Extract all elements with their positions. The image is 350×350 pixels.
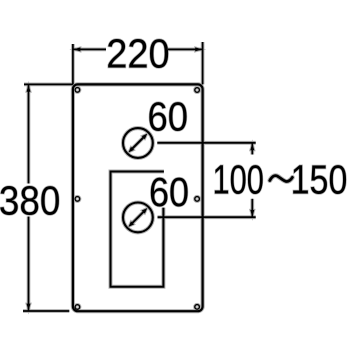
screw hole top-right	[195, 88, 200, 93]
dim 380 extension line bottom	[23, 310, 69, 312]
lower hole diameter arrow upper-right	[142, 208, 148, 214]
upper hole diameter line	[130, 136, 145, 151]
dim 100-150 arrow bottom	[250, 210, 254, 217]
dim 100-150 line lower segment	[251, 199, 253, 217]
dim 220 line right segment	[168, 48, 203, 50]
dim 220 arrow left	[73, 47, 80, 51]
upper hole diameter arrow lower-left	[128, 147, 134, 153]
upper hole circle	[123, 128, 153, 158]
svg-text:60: 60	[149, 170, 189, 216]
screw hole bottom-right	[195, 305, 200, 310]
lower hole circle	[123, 203, 153, 233]
inner cutout rectangle (right edge hidden behind 60 label)	[111, 172, 164, 287]
svg-text:220: 220	[106, 31, 169, 77]
dim 220 extension line right	[202, 42, 204, 84]
svg-text:380: 380	[0, 179, 60, 224]
screw hole mid-right	[195, 197, 200, 202]
dim 100-150 line upper segment	[251, 143, 253, 155]
dim 380 extension line top	[24, 83, 73, 85]
leader from lower hole	[158, 216, 256, 218]
dim 220 arrow right	[195, 47, 202, 51]
screw hole mid-left	[75, 197, 80, 202]
dim 380 line lower segment	[28, 217, 30, 311]
dim 220 line left segment	[73, 48, 106, 50]
dim 380 arrow top	[27, 85, 31, 92]
label 100-150 wave dash	[270, 176, 293, 182]
svg-text:100: 100	[213, 156, 264, 202]
dim 380 arrow bottom	[27, 304, 31, 311]
screw hole bottom-left	[75, 305, 80, 310]
plate outline	[73, 84, 203, 311]
screw hole top-left	[75, 88, 80, 93]
lower hole diameter line	[130, 210, 145, 225]
lower hole diameter arrow lower-left	[128, 221, 134, 227]
dim 220 extension line left	[72, 44, 74, 84]
svg-text:60: 60	[148, 94, 188, 139]
leader from upper hole	[157, 142, 255, 144]
upper hole diameter arrow upper-right	[142, 134, 148, 140]
dim 100-150 arrow top	[250, 143, 254, 150]
dim 380 line upper segment	[28, 85, 30, 184]
svg-text:150: 150	[291, 157, 348, 203]
